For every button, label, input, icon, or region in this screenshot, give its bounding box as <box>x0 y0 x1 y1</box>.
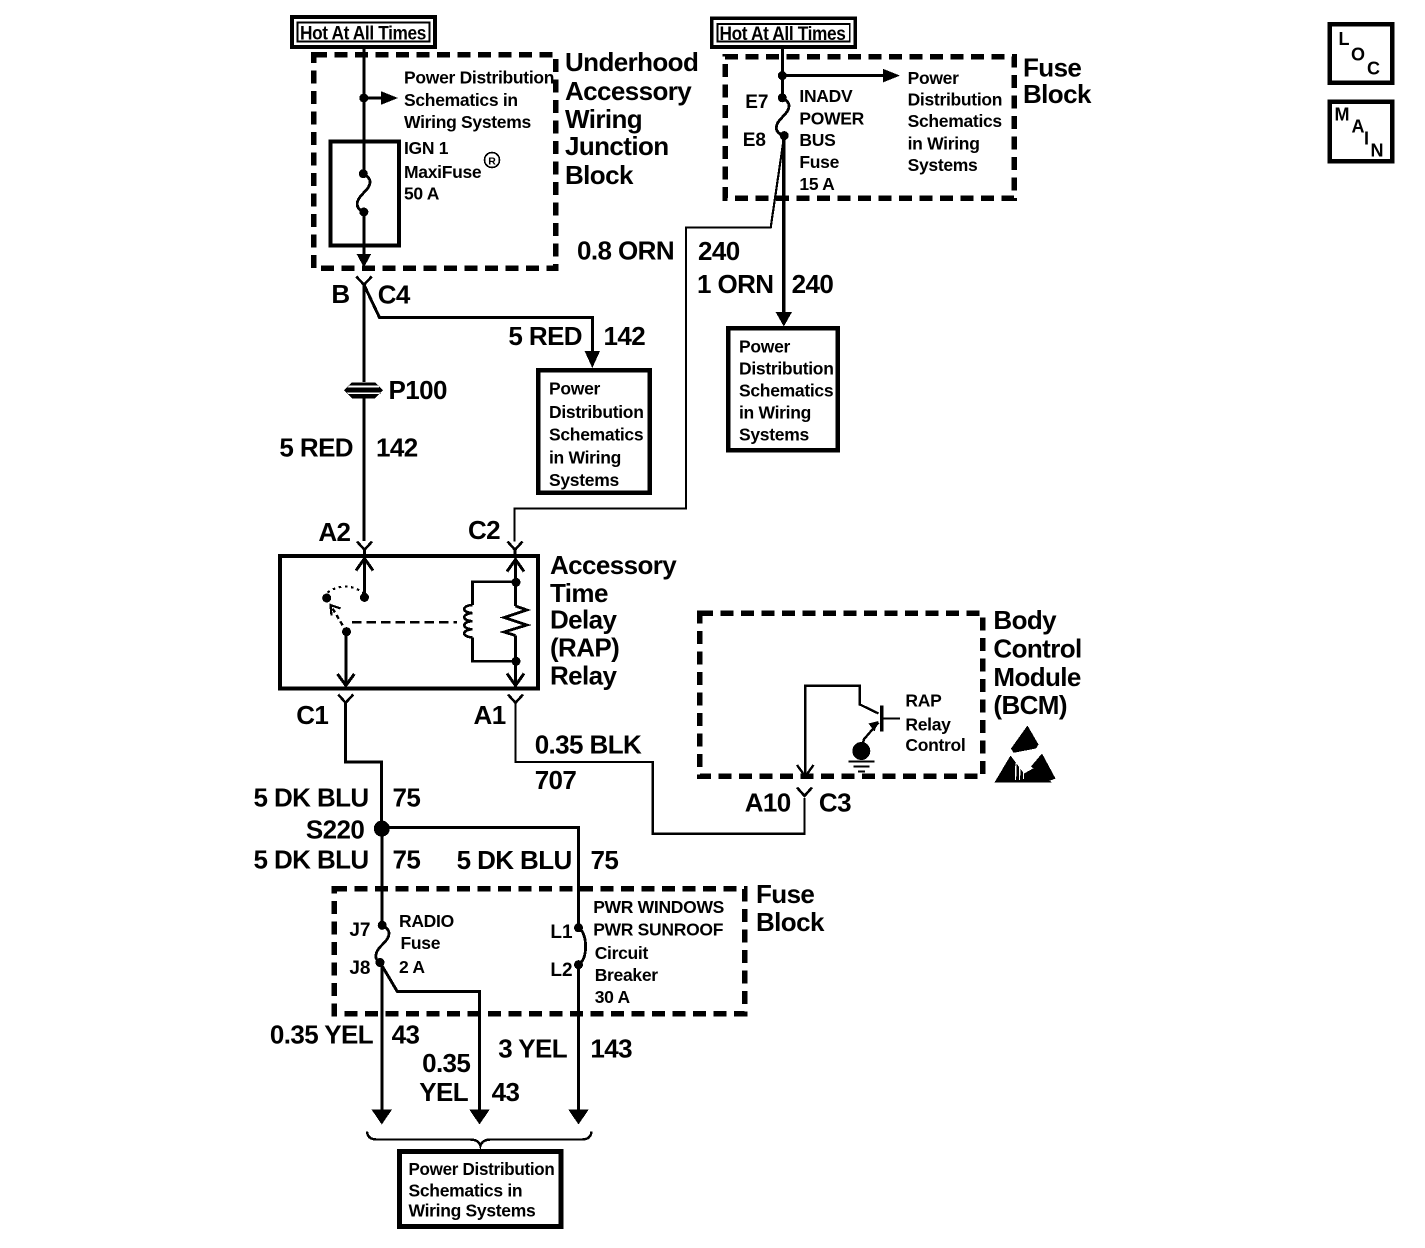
label RAP Relay Control <box>905 691 965 756</box>
svg-text:Distribution: Distribution <box>549 402 644 422</box>
svg-text:L: L <box>1339 29 1350 49</box>
value label INADV POWER BUS Fuse 15 A <box>799 86 864 194</box>
wire arrow to Power Distribution Schematics (fuse block) <box>782 69 900 83</box>
svg-text:S220: S220 <box>306 815 364 845</box>
svg-text:Systems: Systems <box>549 470 619 490</box>
svg-text:Control: Control <box>905 735 965 755</box>
transistor Q1 collector stub <box>884 717 901 719</box>
ground symbol inside BCM <box>849 742 875 772</box>
svg-text:5 DK BLU: 5 DK BLU <box>253 783 368 813</box>
svg-text:PWR SUNROOF: PWR SUNROOF <box>593 920 724 940</box>
svg-text:in Wiring: in Wiring <box>908 134 980 154</box>
transistor Q1 base bar <box>880 706 883 732</box>
pin A10 / C3 connector <box>745 788 851 818</box>
label Fuse Block (top) <box>1023 53 1092 110</box>
relay Accessory Time Delay (RAP) Relay box <box>280 556 538 689</box>
wire fuse to junction block exit with down arrow <box>357 212 372 268</box>
svg-text:Schematics: Schematics <box>549 425 644 445</box>
svg-text:Fuse: Fuse <box>1023 53 1081 83</box>
pin C2 connector <box>468 515 523 556</box>
svg-text:43: 43 <box>392 1020 420 1050</box>
svg-text:15 A: 15 A <box>799 174 835 194</box>
wire B down to P100 <box>363 285 366 382</box>
svg-text:Block: Block <box>565 160 634 190</box>
svg-text:5 RED: 5 RED <box>279 433 353 463</box>
fuse RADIO 2 A element, pins J7 J8 <box>349 920 389 979</box>
relay: dashed actuation line to coil <box>352 621 457 624</box>
svg-text:A10: A10 <box>745 788 791 818</box>
svg-text:Circuit: Circuit <box>595 943 649 963</box>
node coil bottom junction <box>512 657 521 666</box>
node S220 splice <box>306 815 390 845</box>
svg-text:240: 240 <box>698 236 740 266</box>
node junction dot in fuse block <box>778 71 787 80</box>
svg-text:30 A: 30 A <box>595 987 631 1007</box>
circuit breaker PWR WINDOWS PWR SUNROOF 30 A, pins L1 L2 <box>550 922 585 981</box>
svg-text:Junction: Junction <box>565 131 669 161</box>
svg-text:240: 240 <box>792 269 834 299</box>
svg-text:C3: C3 <box>819 788 851 818</box>
svg-text:Control: Control <box>993 634 1081 664</box>
svg-text:Wiring: Wiring <box>565 104 642 134</box>
wire label 5 DK BLU 75 (lower right) <box>457 845 619 875</box>
svg-text:IGN 1: IGN 1 <box>404 138 449 158</box>
svg-text:P100: P100 <box>389 375 447 405</box>
svg-text:A2: A2 <box>318 517 350 547</box>
svg-text:Systems: Systems <box>908 155 978 175</box>
pin A1 connector <box>474 695 523 731</box>
svg-text:Relay: Relay <box>905 715 951 735</box>
svg-text:Accessory: Accessory <box>550 550 677 580</box>
svg-text:BUS: BUS <box>799 130 835 150</box>
svg-text:5 DK BLU: 5 DK BLU <box>457 845 572 875</box>
wire label 0.35 YEL 43 (left) <box>270 1020 420 1050</box>
svg-text:75: 75 <box>393 845 421 875</box>
wire from Hot At All Times into fuse block <box>781 47 784 98</box>
fuse INADV POWER BUS 15 A element, pins E7 E8 <box>743 92 789 151</box>
relay switch: fixed contact node <box>360 593 369 602</box>
svg-text:E7: E7 <box>745 92 768 113</box>
svg-text:Distribution: Distribution <box>739 359 834 379</box>
svg-text:L1: L1 <box>550 922 573 943</box>
relay coil K1 <box>464 582 516 662</box>
svg-text:C4: C4 <box>378 280 411 310</box>
wire S220 down to radio fuse J7 (5 DK BLU 75) <box>380 829 383 925</box>
svg-text:Power: Power <box>549 379 601 399</box>
svg-text:Body: Body <box>993 605 1057 635</box>
wire L2 down exit (3 YEL 143) with arrow <box>568 965 588 1125</box>
svg-text:Breaker: Breaker <box>595 965 659 985</box>
connector P100 <box>344 375 447 405</box>
svg-text:in Wiring: in Wiring <box>739 403 811 423</box>
svg-text:Systems: Systems <box>739 425 809 445</box>
svg-text:MaxiFuse: MaxiFuse <box>404 162 482 182</box>
svg-text:Underhood: Underhood <box>565 47 698 77</box>
svg-text:RADIO: RADIO <box>399 911 454 931</box>
svg-text:Fuse: Fuse <box>756 879 814 909</box>
wire label 5 DK BLU 75 (upper) <box>253 783 420 813</box>
label box Power Distribution Schematics in Wiring Systems (bottom) <box>400 1152 562 1227</box>
svg-text:Wiring Systems: Wiring Systems <box>404 112 531 132</box>
svg-text:PWR WINDOWS: PWR WINDOWS <box>593 897 724 917</box>
label Power Distribution Schematics in Wiring Systems (junction block) <box>404 68 554 133</box>
svg-text:Power Distribution: Power Distribution <box>404 68 554 88</box>
svg-text:3 YEL: 3 YEL <box>498 1034 567 1064</box>
svg-text:C: C <box>1367 59 1380 79</box>
svg-text:J7: J7 <box>349 920 370 941</box>
svg-text:Schematics in: Schematics in <box>404 90 518 110</box>
wire A1 to BCM C3 (0.35 BLK 707) <box>516 703 805 834</box>
wire P100 down to relay A2 <box>363 399 366 542</box>
svg-text:143: 143 <box>590 1034 632 1064</box>
wire J8 jog branch down (0.35 YEL 43 center) with arrow <box>380 963 490 1125</box>
svg-text:INADV: INADV <box>799 86 853 106</box>
Fuse Block dashed box (top) <box>725 57 1014 199</box>
fuse IGN 1 MaxiFuse 50 A box <box>331 141 400 245</box>
wire relay A2 entry with up arrow <box>356 559 373 598</box>
svg-text:Module: Module <box>993 662 1081 692</box>
wire branch C4 to Power Distribution box (5 RED 142) <box>364 285 600 368</box>
wire label 5 RED 142 (lower) <box>279 433 417 463</box>
svg-text:L2: L2 <box>550 960 572 981</box>
Fuse Block dashed box (bottom) <box>334 889 745 1014</box>
svg-text:Hot At All Times: Hot At All Times <box>720 24 846 45</box>
wire relay C1 exit with down arrow <box>338 632 355 686</box>
wire C1 down to S220 <box>346 703 382 821</box>
wire label 0.8 ORN 240 <box>577 236 740 267</box>
wire E8 to relay C2 (0.8 ORN 240) <box>515 136 785 542</box>
svg-text:Schematics: Schematics <box>739 381 834 401</box>
svg-text:142: 142 <box>376 433 418 463</box>
svg-text:Fuse: Fuse <box>401 933 441 953</box>
value label PWR WINDOWS PWR SUNROOF Circuit Breaker 30 A <box>593 897 724 1007</box>
svg-text:Wiring Systems: Wiring Systems <box>409 1201 536 1221</box>
svg-text:N: N <box>1371 141 1384 161</box>
ESD sensitive device symbol <box>995 726 1056 783</box>
svg-text:43: 43 <box>492 1077 520 1107</box>
svg-text:5 DK BLU: 5 DK BLU <box>253 845 368 875</box>
svg-text:2 A: 2 A <box>399 957 425 977</box>
label Power Distribution Schematics in Wiring Systems (fuse block) <box>908 68 1003 175</box>
svg-text:Block: Block <box>1023 79 1092 109</box>
LOC reference box <box>1330 24 1393 83</box>
svg-text:Power: Power <box>908 68 960 88</box>
label box "Hot At All Times" (right) <box>712 18 855 47</box>
pin C1 connector <box>296 695 353 731</box>
svg-text:Accessory: Accessory <box>565 76 692 106</box>
wire J8 down exit (0.35 YEL 43) with arrow <box>372 963 393 1125</box>
relay resistor (parallel with coil) <box>504 582 527 661</box>
wire label 5 RED 142 (upper) <box>508 321 645 351</box>
Underhood Accessory Wiring Junction Block dashed box <box>314 55 556 268</box>
wire relay C2 entry with up arrow <box>507 560 524 583</box>
Body Control Module (BCM) dashed box <box>700 613 983 776</box>
label box "Hot At All Times" (left) <box>292 17 435 47</box>
svg-text:Delay: Delay <box>550 605 618 635</box>
svg-text:Schematics in: Schematics in <box>409 1180 523 1200</box>
svg-text:142: 142 <box>604 321 646 351</box>
label box Power Distribution Schematics in Wiring Systems (middle) <box>538 370 650 492</box>
svg-text:Fuse: Fuse <box>799 152 839 172</box>
wire label 5 DK BLU 75 (lower left) <box>253 845 420 875</box>
svg-text:0.8 ORN: 0.8 ORN <box>577 236 674 266</box>
svg-text:in Wiring: in Wiring <box>549 448 621 468</box>
svg-text:RAP: RAP <box>905 691 942 711</box>
svg-text:Block: Block <box>756 907 825 937</box>
svg-text:75: 75 <box>591 845 619 875</box>
node coil top junction <box>512 578 521 587</box>
svg-text:Schematics: Schematics <box>908 111 1003 131</box>
svg-text:A1: A1 <box>474 700 506 730</box>
relay switch: pivot node <box>322 594 331 603</box>
value label RADIO Fuse 2 A <box>399 911 454 977</box>
wire label 0.35 BLK 707 <box>535 730 642 796</box>
relay switch: movable arm with arrowhead <box>331 605 347 632</box>
pin B / C4 connector <box>331 277 411 310</box>
MAIN reference box <box>1330 102 1393 161</box>
svg-text:YEL: YEL <box>419 1077 468 1107</box>
label Accessory Time Delay (RAP) Relay <box>550 550 677 691</box>
svg-text:A: A <box>1352 117 1365 137</box>
svg-text:Power Distribution: Power Distribution <box>409 1159 555 1179</box>
svg-text:5 RED: 5 RED <box>508 321 582 351</box>
wire label 0.35 YEL 43 (center) <box>419 1048 519 1107</box>
svg-text:Hot At All Times: Hot At All Times <box>300 24 426 45</box>
svg-text:Relay: Relay <box>550 661 618 691</box>
svg-text:B: B <box>331 279 349 309</box>
wire BCM exit down arrow <box>797 765 814 777</box>
svg-text:Distribution: Distribution <box>908 90 1003 110</box>
wire S220 to circuit breaker L1 (5 DK BLU 75) <box>382 828 579 925</box>
svg-text:1 ORN: 1 ORN <box>697 269 773 299</box>
brace grouping the three exits <box>367 1132 592 1146</box>
svg-text:75: 75 <box>393 783 421 813</box>
wire label 1 ORN 240 <box>697 269 833 299</box>
label Fuse Block (bottom) <box>756 879 825 937</box>
svg-text:M: M <box>1335 105 1350 125</box>
svg-text:(RAP): (RAP) <box>550 633 619 663</box>
relay switch: common node <box>342 627 351 636</box>
svg-text:E8: E8 <box>743 130 766 151</box>
wire label 3 YEL 143 <box>498 1034 632 1064</box>
svg-text:0.35 BLK: 0.35 BLK <box>535 730 642 760</box>
svg-text:0.35 YEL: 0.35 YEL <box>270 1020 374 1050</box>
svg-text:R: R <box>488 156 496 168</box>
fuse IGN 1 element <box>357 169 370 216</box>
svg-text:Time: Time <box>550 578 608 608</box>
value label IGN 1 MaxiFuse(R) 50 A <box>404 138 500 204</box>
wire from Hot At All Times into junction block <box>362 47 365 174</box>
svg-text:(BCM): (BCM) <box>993 690 1067 720</box>
svg-text:C2: C2 <box>468 515 500 545</box>
relay switch: dotted travel arc <box>328 587 364 593</box>
label Underhood Accessory Wiring Junction Block <box>565 47 698 190</box>
svg-text:J8: J8 <box>349 958 370 979</box>
node junction dot in junction block <box>359 94 368 103</box>
wire E8 down to Power Distribution box with arrow (1 ORN 240) <box>776 136 792 327</box>
svg-text:POWER: POWER <box>799 109 864 129</box>
svg-text:707: 707 <box>535 765 577 795</box>
label Body Control Module (BCM) <box>993 605 1081 720</box>
wire relay A1 exit with down arrow <box>507 661 524 685</box>
BCM internal RAP Relay Control driver wire <box>805 686 878 774</box>
wire arrow to Power Distribution Schematics (junction block) <box>364 91 398 105</box>
svg-text:O: O <box>1351 45 1365 65</box>
transistor Q1 emitter with arrowhead to ground <box>862 721 879 747</box>
svg-text:C1: C1 <box>296 700 328 730</box>
svg-text:50 A: 50 A <box>404 184 440 204</box>
svg-text:I: I <box>1364 129 1369 149</box>
label box Power Distribution Schematics in Wiring Systems (right) <box>728 328 838 450</box>
svg-text:Power: Power <box>739 337 791 357</box>
svg-text:0.35: 0.35 <box>422 1048 470 1078</box>
pin A2 connector <box>318 517 372 556</box>
